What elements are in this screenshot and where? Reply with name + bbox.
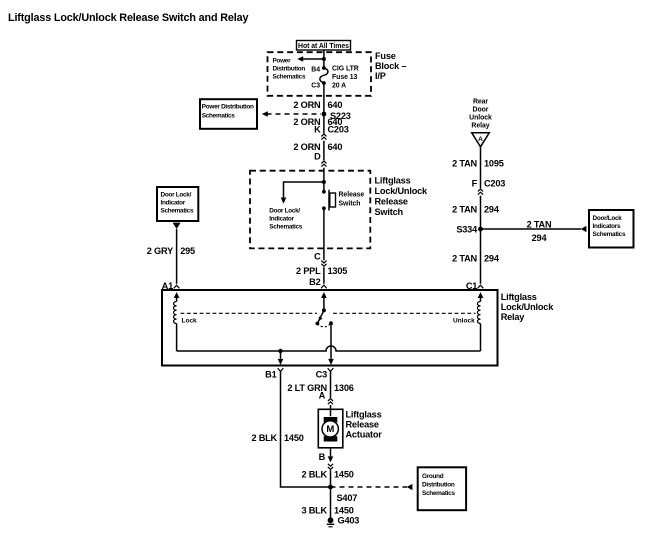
svg-text:Fuse 13: Fuse 13	[332, 74, 358, 81]
wire: B1 down and over to S407	[281, 371, 331, 487]
svg-text:Switch: Switch	[375, 207, 404, 217]
connector caret at B2	[321, 285, 327, 288]
Ground Distribution Schematics box	[418, 467, 466, 510]
svg-text:Indicators: Indicators	[593, 223, 621, 230]
relay switch throw (dashed arc)	[317, 323, 331, 327]
svg-text:Fuse: Fuse	[375, 51, 396, 61]
connector chevrons at C (down)	[321, 261, 326, 267]
svg-text:Ground: Ground	[422, 473, 444, 480]
svg-text:640: 640	[328, 142, 343, 152]
dashed wire from S223 to power distribution	[262, 111, 321, 117]
pin F / connector C203	[472, 178, 506, 188]
wire: C203 down to switch connector D	[323, 141, 325, 161]
release switch plunger symbol	[329, 190, 336, 211]
wire: S334 down to relay pin C1	[480, 229, 482, 284]
svg-text:1450: 1450	[334, 470, 354, 480]
svg-text:A: A	[319, 391, 326, 401]
rear door unlock relay triangle A	[472, 133, 490, 147]
value label 2 ORN 640 (lower)	[293, 142, 342, 152]
svg-text:294: 294	[484, 204, 500, 214]
value label 2 ORN 640 (upper)	[293, 100, 342, 110]
svg-text:2 TAN: 2 TAN	[527, 220, 552, 230]
svg-text:S334: S334	[456, 225, 478, 235]
door lock/indicator schematics note (inside switch box)	[269, 208, 302, 231]
relay pin C1 arrow	[478, 292, 484, 302]
svg-text:Indicator: Indicator	[161, 200, 186, 207]
fuse block I/P dashed box	[268, 52, 372, 96]
svg-text:2 BLK: 2 BLK	[251, 433, 277, 443]
svg-text:Switch: Switch	[339, 201, 361, 208]
svg-text:C3: C3	[316, 370, 327, 380]
svg-text:1450: 1450	[334, 505, 354, 515]
node: junction dot in switch box	[322, 180, 326, 184]
value label 2 GRY 295	[147, 246, 195, 256]
lock coil L1	[174, 302, 177, 324]
relay pin A1 arrow	[174, 292, 180, 302]
connector C203 chevrons	[321, 134, 326, 140]
Liftglass Lock/Unlock Relay label	[501, 292, 555, 322]
Liftglass Lock/Unlock Release Switch label	[375, 176, 429, 218]
svg-text:2 TAN: 2 TAN	[452, 159, 477, 169]
power distribution schematics note (inside fuse box)	[273, 58, 306, 81]
node: junction dot at fuse top	[322, 57, 326, 61]
svg-text:1305: 1305	[328, 266, 348, 276]
splice S223	[322, 112, 327, 117]
connector chevrons at A	[328, 399, 333, 405]
svg-text:Liftglass: Liftglass	[346, 410, 382, 420]
svg-text:Release: Release	[346, 420, 379, 430]
svg-text:Liftglass: Liftglass	[501, 292, 537, 302]
svg-text:Liftglass Lock/Unlock Release: Liftglass Lock/Unlock Release Switch and…	[8, 12, 248, 24]
connector C203 chevrons (right)	[478, 189, 483, 195]
node: bus junction at B1	[278, 349, 284, 365]
svg-text:2 GRY: 2 GRY	[147, 246, 173, 256]
svg-text:Power Distribution: Power Distribution	[202, 104, 254, 111]
value label 2 TAN 294 (upper)	[452, 204, 500, 214]
svg-text:1306: 1306	[334, 383, 354, 393]
svg-text:Hot at All Times: Hot at All Times	[298, 43, 349, 50]
svg-text:Schematics: Schematics	[202, 113, 235, 120]
svg-text:C3: C3	[311, 83, 320, 90]
fuse CIG LTR Fuse 13 20A	[320, 68, 328, 83]
svg-text:640: 640	[328, 100, 343, 110]
wire: S407 down to ground G403	[330, 487, 332, 520]
release switch S1 contacts	[322, 190, 326, 194]
liftglass release switch dashed box	[250, 171, 370, 249]
Door Lock/Indicator Schematics box (left)	[157, 187, 198, 221]
svg-text:294: 294	[532, 233, 548, 243]
svg-text:Actuator: Actuator	[346, 430, 383, 440]
svg-text:Block –: Block –	[375, 61, 406, 71]
svg-text:G403: G403	[338, 516, 360, 526]
pin B (actuator) + arrow out	[328, 448, 334, 462]
wire: unlock coil to bus	[480, 324, 482, 352]
relay internal bus with hop over C3 wire	[177, 346, 481, 351]
svg-text:C203: C203	[328, 124, 349, 134]
svg-text:Indicator: Indicator	[269, 216, 294, 223]
Door/Lock Indicators Schematics box	[589, 210, 634, 248]
svg-text:Schematics: Schematics	[161, 208, 194, 215]
svg-text:Release: Release	[339, 192, 365, 199]
svg-text:2 TAN: 2 TAN	[452, 204, 477, 214]
wire: C down to relay pin B2	[323, 267, 325, 284]
wire: switch output down to pin C	[323, 208, 325, 260]
wire: triangle down to connector F/C203	[480, 147, 482, 189]
svg-text:1450: 1450	[284, 433, 304, 443]
wire: S334 to door/lock indicators	[481, 226, 587, 232]
svg-text:B4: B4	[311, 67, 320, 74]
pin K / connector C203	[314, 124, 349, 134]
wire: switch common down to pin C3	[328, 323, 334, 365]
svg-text:Power: Power	[273, 58, 292, 65]
ground G403	[327, 517, 335, 526]
Hot at All Times box	[297, 41, 351, 51]
svg-text:Lock/Unlock: Lock/Unlock	[375, 186, 429, 196]
value label 2 TAN 294 (branch)	[527, 220, 552, 243]
svg-text:1095: 1095	[484, 159, 504, 169]
motor M1 symbol	[322, 417, 338, 442]
svg-text:Schematics: Schematics	[422, 490, 455, 497]
svg-text:2 BLK: 2 BLK	[301, 470, 327, 480]
unlock coil L2	[477, 302, 480, 324]
svg-text:295: 295	[180, 246, 195, 256]
svg-text:Relay: Relay	[471, 123, 489, 130]
value label 3 BLK 1450	[301, 505, 353, 515]
svg-text:Door/Lock: Door/Lock	[593, 215, 623, 222]
Release Switch label	[339, 192, 365, 208]
svg-text:Unlock: Unlock	[453, 318, 475, 325]
connector caret at C3 (down)	[328, 368, 334, 371]
svg-text:B1: B1	[265, 370, 276, 380]
svg-text:Liftglass: Liftglass	[375, 176, 411, 186]
svg-text:Door: Door	[473, 107, 489, 114]
connector caret at C1	[478, 285, 484, 288]
wire: into release switch	[323, 168, 325, 182]
relay internal dashed line	[181, 312, 476, 314]
svg-text:A: A	[478, 136, 483, 143]
value label 2 TAN 294 (lower)	[452, 253, 500, 263]
splice S334	[478, 227, 483, 232]
svg-text:I/P: I/P	[375, 71, 386, 81]
svg-text:2 TAN: 2 TAN	[452, 253, 477, 263]
svg-text:CIG LTR: CIG LTR	[332, 66, 359, 73]
value label 2 ORN 640 (middle)	[293, 117, 342, 127]
dashed wire from S407 to ground distribution	[331, 484, 413, 490]
connector caret at B1 (down)	[278, 368, 284, 371]
Rear Door Unlock Relay label	[469, 99, 492, 130]
svg-text:S407: S407	[337, 493, 358, 503]
arrow out of door lock box	[173, 223, 181, 229]
value label 2 BLK 1450 (actuator side)	[301, 470, 353, 480]
value label 2 BLK 1450 (B1 side)	[251, 433, 303, 443]
value label 2 TAN 1095	[452, 159, 504, 169]
svg-text:Schematics: Schematics	[593, 231, 626, 238]
Power Distribution Schematics box	[200, 99, 257, 129]
svg-text:C203: C203	[484, 178, 505, 188]
svg-text:20 A: 20 A	[332, 83, 346, 90]
svg-text:B: B	[319, 452, 326, 462]
svg-text:Lock/Unlock: Lock/Unlock	[501, 302, 555, 312]
wire: fuse output down to connector K/C203	[323, 83, 325, 134]
wire: Hot feed down to fuse	[323, 50, 325, 69]
wire: into actuator	[330, 405, 332, 416]
wire: C3 down to actuator pin A	[330, 371, 332, 398]
relay pin B2 arrow	[321, 292, 327, 310]
svg-text:Distribution: Distribution	[422, 482, 455, 489]
svg-text:2 ORN: 2 ORN	[293, 100, 321, 110]
svg-text:Rear: Rear	[473, 99, 488, 106]
svg-text:3 BLK: 3 BLK	[301, 505, 327, 515]
value label 2 LT GRN 1306	[287, 383, 353, 393]
svg-text:Schematics: Schematics	[273, 74, 306, 81]
svg-text:M: M	[326, 424, 334, 435]
svg-text:Relay: Relay	[501, 312, 526, 322]
svg-text:Unlock: Unlock	[469, 115, 492, 122]
svg-text:Schematics: Schematics	[269, 224, 302, 231]
svg-text:Release: Release	[375, 197, 408, 207]
arrow to power distribution (inside fuse box)	[297, 56, 324, 62]
svg-text:Lock: Lock	[182, 318, 198, 325]
svg-text:B2: B2	[309, 277, 320, 287]
svg-text:K: K	[314, 124, 321, 134]
liftglass release actuator M1 box	[318, 409, 343, 448]
svg-text:D: D	[314, 151, 321, 161]
wire: B down to splice S407	[330, 470, 332, 487]
svg-text:Door Lock/: Door Lock/	[161, 192, 192, 199]
relay switch arm	[316, 308, 326, 325]
svg-text:C: C	[314, 252, 321, 262]
svg-text:Distribution: Distribution	[273, 66, 306, 73]
svg-text:F: F	[472, 178, 478, 188]
wire: door lock box down to relay pin A1	[176, 229, 178, 284]
wire: lock coil to bus	[176, 324, 178, 352]
connector chevrons at D	[321, 161, 326, 167]
svg-text:Door Lock/: Door Lock/	[269, 208, 300, 215]
splice S407	[328, 485, 333, 490]
wire: C203 down to splice S334	[480, 196, 482, 229]
connector caret at A1	[174, 285, 180, 288]
wire: junction to switch contact	[323, 182, 325, 192]
Liftglass Release Actuator label	[346, 410, 383, 440]
value label 2 PPL 1305	[296, 266, 347, 276]
Fuse Block - I/P label	[375, 51, 406, 81]
wire: branch to door lock indicator note	[281, 182, 324, 204]
svg-text:294: 294	[484, 253, 500, 263]
svg-text:2 PPL: 2 PPL	[296, 266, 321, 276]
svg-text:2 ORN: 2 ORN	[293, 142, 321, 152]
relay K1 box: Liftglass Lock/Unlock Relay	[162, 290, 498, 366]
connector chevrons at B (down)	[328, 464, 333, 470]
